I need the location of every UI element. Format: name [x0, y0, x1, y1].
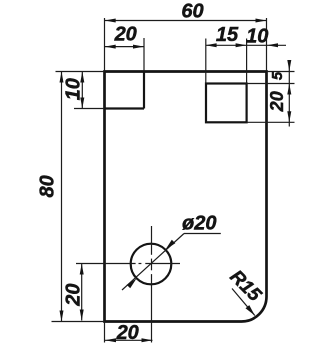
- dimension line 60: [105, 20, 267, 22]
- arrow dim20L down: [80, 310, 84, 321]
- top-left square notch right edge: [143, 72, 145, 109]
- arrow dim20TL right: [133, 45, 144, 49]
- arrow dim10L down: [80, 98, 84, 109]
- extension line at x246.6: [246, 39, 248, 84]
- svg-text:60: 60: [181, 1, 203, 23]
- circle vertical centerline: [151, 226, 153, 255]
- radius leader R15: [232, 289, 255, 316]
- dimension line 20 bottom: [105, 339, 153, 341]
- arrow dia upper: [165, 240, 175, 250]
- svg-text:20: 20: [116, 322, 139, 344]
- circle horizontal centerline: [76, 263, 136, 265]
- extension line notch bottom to left: [74, 108, 105, 110]
- arrow dim10L up: [80, 72, 84, 83]
- svg-text:80: 80: [36, 175, 58, 197]
- extension line left edge downward: [104, 322, 106, 343]
- dimension line 80: [61, 72, 63, 322]
- arrow dim20B right: [142, 338, 153, 342]
- svg-text:10: 10: [246, 26, 268, 48]
- svg-text:15: 15: [216, 24, 239, 46]
- arrow dim60 left: [105, 19, 116, 23]
- diameter leader diagonal: [122, 234, 184, 291]
- plate outline with rounded corner R15: [105, 72, 267, 322]
- extension line top edge to right: [267, 71, 295, 73]
- circle hole d20: [131, 244, 172, 285]
- svg-text:20: 20: [114, 24, 137, 46]
- extension line left of dim 60: [104, 18, 106, 72]
- extension line square bottom to right: [247, 121, 295, 123]
- extension line top edge to left: [56, 71, 105, 73]
- arrow dim20TL left: [105, 45, 116, 49]
- top-left square notch bottom edge: [105, 107, 145, 109]
- arrow dim20B left: [105, 338, 116, 342]
- svg-text:20: 20: [267, 91, 287, 112]
- arrow dim5/20 up: [287, 84, 291, 95]
- arrow dim80 down: [60, 311, 64, 322]
- dimension line 15 and 10: [206, 44, 286, 46]
- svg-text:20: 20: [62, 283, 84, 306]
- arrow R15: [246, 305, 255, 315]
- dimension line 20 top-left: [105, 46, 144, 48]
- arrow dim80 up: [60, 72, 64, 83]
- arrow dim60 right: [256, 19, 267, 23]
- arrow dim20R down: [287, 111, 291, 122]
- arrow dim20L up: [80, 264, 84, 275]
- diameter leader shoulder: [184, 233, 221, 235]
- extension line bottom edge to left: [52, 321, 105, 323]
- svg-text:ø20: ø20: [182, 213, 216, 235]
- arrow dia lower: [127, 278, 137, 288]
- extension line square top to right: [247, 83, 295, 85]
- arrow dim15 left: [206, 43, 217, 47]
- dimension line 10 left: [81, 72, 83, 109]
- arrow dim15 right: [236, 43, 247, 47]
- top-right square hole: [206, 84, 247, 123]
- dimension line 20 lower-left: [81, 264, 83, 321]
- extension line at x144: [143, 38, 145, 72]
- extension line right of dim 60: [266, 18, 268, 72]
- extension line at x205.8: [205, 39, 207, 84]
- svg-text:5: 5: [269, 71, 286, 80]
- arrow dim5 down: [287, 60, 291, 71]
- arrow dim10 outside: [267, 43, 278, 47]
- dimension line 5 and 20 right: [288, 62, 290, 127]
